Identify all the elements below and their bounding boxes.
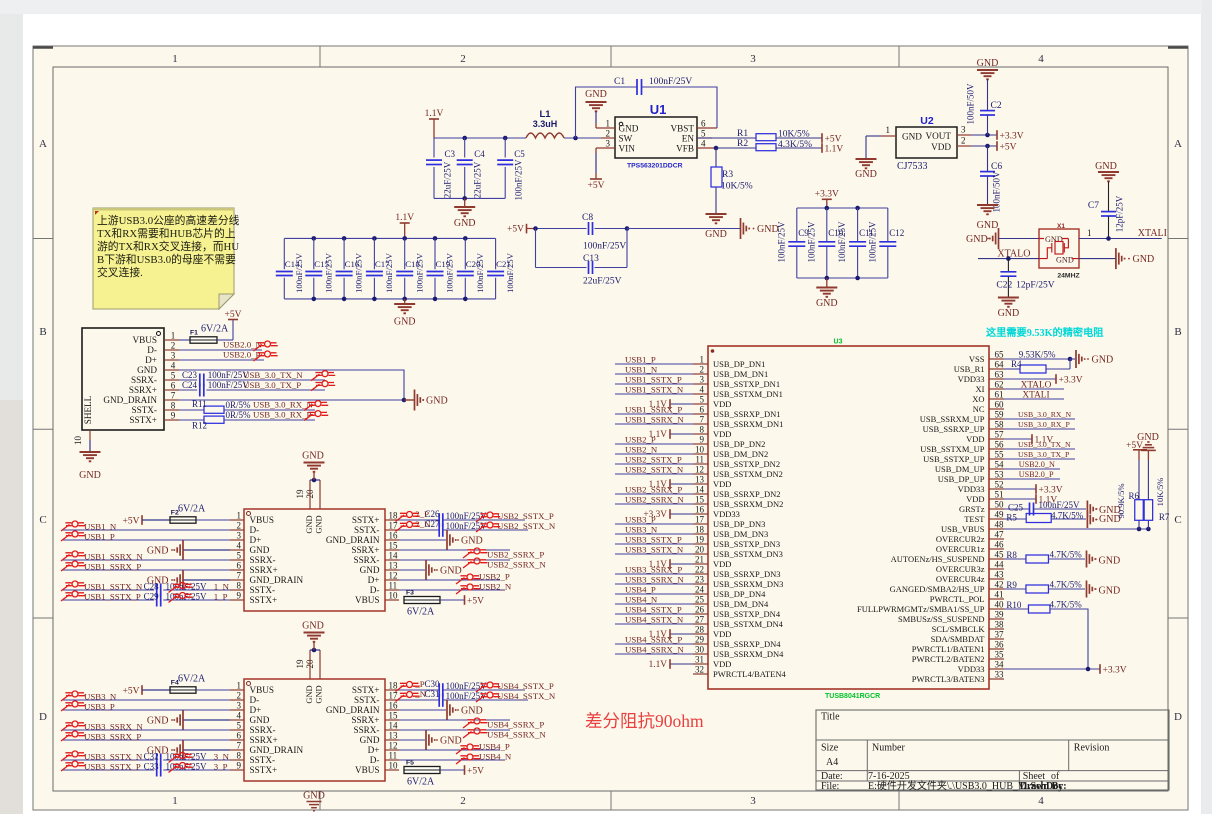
op-amp U1 — [615, 102, 697, 170]
capacitor C32 — [62, 752, 230, 767]
capacitor C31 — [399, 689, 528, 707]
svg-text:6: 6 — [701, 119, 706, 129]
svg-text:GND_DRAIN: GND_DRAIN — [326, 705, 380, 715]
svg-text:+5V: +5V — [225, 310, 242, 320]
svg-text:40: 40 — [995, 600, 1005, 610]
svg-text:C7: C7 — [1088, 201, 1099, 211]
svg-text:100nF/25V: 100nF/25V — [837, 221, 847, 263]
svg-text:3: 3 — [961, 125, 966, 135]
svg-text:6: 6 — [171, 381, 176, 391]
svg-text:USB3_SSRX_N: USB3_SSRX_N — [84, 722, 143, 732]
svg-text:11: 11 — [389, 751, 398, 761]
net USB2_SSTX_N wire U3 pin 12 — [615, 465, 693, 475]
capacitor C1 bootstrap — [576, 77, 718, 138]
net USB4_SSTX_N wire U3 pin 27 — [615, 615, 693, 625]
power +5V at fuse F4 — [123, 685, 170, 696]
svg-text:USB3_P: USB3_P — [625, 515, 656, 525]
svg-text:Revision: Revision — [1074, 743, 1110, 754]
svg-text:USB_3.0_TX_N: USB_3.0_TX_N — [243, 370, 303, 380]
svg-text:8: 8 — [237, 751, 242, 761]
svg-text:12: 12 — [389, 571, 398, 581]
power 1.1V U3 pin 28 — [649, 629, 693, 640]
svg-text:D+: D+ — [368, 745, 380, 755]
svg-text:7: 7 — [237, 741, 242, 751]
svg-text:C2: C2 — [991, 101, 1002, 111]
svg-text:上游USB3.0公座的高速差分线: 上游USB3.0公座的高速差分线 — [97, 213, 240, 227]
svg-text:VDD: VDD — [713, 659, 731, 669]
capacitor C5 — [497, 138, 525, 201]
capacitor C16 — [336, 238, 364, 299]
net XTALO — [978, 249, 1039, 261]
svg-text:USB_DP_DN4: USB_DP_DN4 — [713, 589, 766, 599]
svg-text:_P: _P — [414, 679, 424, 689]
net label USB_3.0_TX_P — [243, 380, 301, 390]
capacitor C26 — [399, 509, 525, 527]
svg-text:26: 26 — [695, 605, 705, 615]
svg-text:C24: C24 — [182, 380, 198, 390]
svg-text:USB_3.0_RX_N: USB_3.0_RX_N — [253, 400, 314, 410]
net VSS wire pin 65 — [1004, 350, 1072, 362]
capacitor C18 — [396, 238, 424, 299]
svg-text:R7: R7 — [1159, 512, 1170, 522]
svg-text:差分阻抗90ohm: 差分阻抗90ohm — [585, 711, 704, 731]
connector J1 upstream — [82, 328, 164, 430]
U1 pin stubs — [596, 128, 717, 148]
svg-text:File:: File: — [821, 781, 839, 792]
connector J2 (USB1/USB2) — [244, 509, 385, 611]
capacitor C8 — [533, 213, 629, 252]
connector J1 pin stubs — [164, 340, 179, 420]
svg-text:TEST: TEST — [964, 514, 985, 524]
svg-text:VDD: VDD — [713, 559, 731, 569]
diff pair marker RX_P — [304, 411, 328, 421]
svg-text:VFB: VFB — [676, 144, 694, 154]
svg-text:R4: R4 — [1011, 359, 1022, 369]
svg-text:GND: GND — [303, 791, 325, 802]
ground below C3-C5 — [454, 198, 476, 229]
svg-text:A4: A4 — [826, 757, 838, 768]
svg-text:100nF/25V: 100nF/25V — [475, 252, 485, 293]
svg-text:35: 35 — [995, 650, 1005, 660]
svg-text:VBUS: VBUS — [250, 685, 275, 695]
svg-text:GND: GND — [147, 716, 169, 727]
net USB1_SSTX_P wire — [84, 592, 228, 602]
resistor R10 at pin 40 — [1004, 600, 1088, 670]
svg-text:GND: GND — [137, 365, 157, 375]
svg-text:USB1_SSRX_P: USB1_SSRX_P — [84, 562, 141, 572]
net USB2.0_P wire — [179, 350, 264, 361]
svg-text:XTALI: XTALI — [1138, 228, 1167, 239]
wire pin4 GND to drain — [179, 370, 404, 400]
svg-text:SSRX-: SSRX- — [131, 375, 157, 385]
svg-text:GND: GND — [1092, 355, 1114, 366]
svg-text:100nF/50V: 100nF/50V — [966, 83, 976, 125]
wire bottom rail C3-C5 — [434, 196, 505, 201]
svg-text:USB2_N: USB2_N — [479, 582, 512, 592]
power +3.3V U3 pin 16 — [643, 509, 693, 520]
svg-text:1.1V: 1.1V — [395, 213, 414, 223]
net USB1_SSRX_N wire — [62, 552, 230, 562]
svg-text:22uF/25V: 22uF/25V — [583, 277, 622, 287]
net USB3_P wire U3 pin 17 — [615, 515, 693, 525]
net USB1_SSTX_P wire U3 pin 3 — [615, 375, 693, 385]
svg-text:43: 43 — [995, 570, 1005, 580]
note text — [97, 213, 240, 279]
diff pair marker USB4_SSRX_N — [463, 728, 487, 738]
fuse F2 — [170, 504, 230, 524]
svg-text:SMBUSz/SS_SUSPEND: SMBUSz/SS_SUSPEND — [898, 614, 984, 624]
svg-text:GND: GND — [1133, 254, 1155, 265]
svg-text:USB_DP_DN2: USB_DP_DN2 — [713, 439, 765, 449]
svg-text:USB4_SSRX_P: USB4_SSRX_P — [625, 635, 682, 645]
diff pair markers USB4_SSTX_N — [396, 692, 501, 703]
svg-text:52: 52 — [995, 480, 1004, 490]
capacitor C17 — [366, 238, 394, 299]
resistor R9 at pin 42 — [1004, 580, 1085, 594]
svg-text:GND: GND — [79, 470, 101, 481]
net USB_3.0_RX_N wire pin 59 — [1004, 410, 1075, 419]
ground at GND_DRAIN — [404, 390, 448, 411]
svg-text:GND: GND — [619, 124, 639, 134]
svg-text:OVERCUR3z: OVERCUR3z — [936, 564, 985, 574]
capacitor C24 — [179, 380, 325, 397]
connector J2 (USB1/USB2) pin names and numbers — [237, 511, 399, 606]
svg-text:19: 19 — [295, 489, 305, 499]
svg-text:SSRX+: SSRX+ — [351, 715, 379, 725]
svg-text:C31: C31 — [425, 689, 440, 699]
svg-text:VBUS: VBUS — [355, 595, 380, 605]
svg-text:USB_VBUS: USB_VBUS — [941, 524, 985, 534]
wire input rail — [434, 137, 615, 139]
svg-text:VBUS: VBUS — [250, 515, 275, 525]
net USB1_SSTX_N wire U3 pin 4 — [615, 385, 693, 395]
svg-text:USB2_SSTX_P: USB2_SSTX_P — [625, 455, 682, 465]
svg-text:12: 12 — [695, 465, 704, 475]
wire gnd rail C9-C12 — [797, 276, 888, 281]
svg-text:USB1_SSRX_N: USB1_SSRX_N — [84, 552, 143, 562]
power 1.1V U3 pin 8 — [649, 429, 693, 440]
svg-text:100nF/25V: 100nF/25V — [414, 252, 424, 293]
svg-text:USB_SSTXM_DN4: USB_SSTXM_DN4 — [713, 619, 784, 629]
net USB4_SSRX_P wire U3 pin 29 — [615, 635, 693, 645]
svg-text:USB1_N: USB1_N — [625, 365, 658, 375]
svg-text:USB2_SSTX_N: USB2_SSTX_N — [497, 521, 556, 531]
svg-text:+5V: +5V — [467, 766, 484, 776]
net USB3_N wire U3 pin 18 — [615, 525, 693, 535]
svg-text:2: 2 — [700, 365, 705, 375]
svg-text:C30: C30 — [425, 679, 441, 689]
svg-text:0R/5%: 0R/5% — [226, 410, 252, 420]
note sticky — [93, 208, 234, 309]
svg-text:R9: R9 — [1006, 580, 1017, 590]
svg-text:USB1_SSTX_P: USB1_SSTX_P — [84, 592, 141, 602]
power 1.1V at R2 — [822, 143, 843, 154]
svg-text:Number: Number — [872, 743, 905, 754]
svg-text:GND_DRAIN: GND_DRAIN — [250, 745, 304, 755]
svg-text:GND: GND — [305, 515, 314, 533]
svg-text:1: 1 — [1087, 228, 1092, 238]
svg-text:SSRX+: SSRX+ — [351, 545, 379, 555]
svg-text:USB3_SSTX_P: USB3_SSTX_P — [625, 535, 682, 545]
junction dots input rail — [462, 136, 577, 141]
svg-text:33: 33 — [995, 670, 1005, 680]
svg-text:VDD33: VDD33 — [958, 374, 985, 384]
svg-text:GND: GND — [705, 229, 727, 240]
svg-text:VDD: VDD — [713, 629, 731, 639]
svg-text:XTALI: XTALI — [1022, 391, 1049, 401]
svg-text:GND: GND — [360, 565, 380, 575]
connector J3 (USB3/USB4) pin stubs — [230, 690, 399, 770]
svg-text:GND_DRAIN: GND_DRAIN — [326, 535, 380, 545]
svg-text:VBST: VBST — [671, 124, 695, 134]
svg-text:USB_SSRXM_DN1: USB_SSRXM_DN1 — [713, 419, 783, 429]
svg-text:28: 28 — [695, 625, 705, 635]
diff pair marker USB2_N — [456, 584, 480, 594]
svg-text:USB1_SSTX_P: USB1_SSTX_P — [625, 375, 682, 385]
svg-text:C28: C28 — [144, 582, 160, 592]
diff pair marker USB2_P — [456, 574, 480, 584]
svg-text:USB_DM_UP: USB_DM_UP — [935, 464, 985, 474]
diff pair marker USB4_SSRX_P — [463, 718, 487, 728]
svg-text:USB_SSRXP_UP: USB_SSRXP_UP — [923, 424, 985, 434]
svg-text:100nF/25V: 100nF/25V — [294, 252, 304, 293]
svg-text:+3.3V: +3.3V — [1000, 131, 1024, 141]
svg-text:8: 8 — [237, 581, 242, 591]
resistor R8 at pin 45 — [1004, 550, 1085, 564]
resistor R1 — [697, 129, 822, 141]
svg-text:100nF/25V: 100nF/25V — [354, 252, 364, 293]
net label USB_3.0_RX_P — [253, 410, 312, 420]
svg-text:XO: XO — [972, 394, 984, 404]
svg-text:27: 27 — [695, 615, 705, 625]
svg-text:10: 10 — [695, 445, 705, 455]
svg-text:13: 13 — [389, 561, 399, 571]
capacitor C30 — [399, 679, 525, 697]
svg-text:USB1_N: USB1_N — [84, 522, 117, 532]
svg-text:13: 13 — [695, 475, 705, 485]
capacitor C15 — [305, 238, 333, 299]
svg-text:F3: F3 — [406, 590, 414, 597]
svg-text:PWRCTL1/BATEN1: PWRCTL1/BATEN1 — [912, 644, 985, 654]
resistor R3 — [711, 148, 753, 213]
svg-text:D: D — [39, 711, 47, 723]
svg-text:GND: GND — [585, 89, 607, 100]
svg-text:100nF/50V: 100nF/50V — [992, 171, 1002, 213]
svg-text:CJ7533: CJ7533 — [897, 161, 928, 172]
power +5V above R6 — [1126, 441, 1147, 451]
svg-text:45: 45 — [995, 550, 1005, 560]
svg-text:USB4_N: USB4_N — [625, 595, 658, 605]
svg-text:C25: C25 — [1008, 503, 1024, 513]
net USB2_SSTX_P wire — [415, 509, 554, 521]
ground at J2 (USB1/USB2) pin16 — [399, 530, 483, 550]
svg-text:100nF/25V: 100nF/25V — [505, 252, 515, 293]
resistor R11 — [179, 399, 315, 413]
svg-text:6V/2A: 6V/2A — [178, 504, 206, 515]
svg-text:D-: D- — [250, 695, 260, 705]
svg-text:EN: EN — [682, 134, 695, 144]
svg-text:USB1_P: USB1_P — [625, 355, 656, 365]
svg-text:B: B — [39, 326, 46, 338]
diff pair markers USB2_SSTX_P — [396, 512, 501, 523]
resistor R7 — [1144, 451, 1170, 530]
svg-text:90.9K/5%: 90.9K/5% — [1116, 483, 1126, 518]
svg-text:100nF/25V: 100nF/25V — [446, 681, 488, 691]
svg-text:GND: GND — [315, 685, 324, 703]
svg-text:23: 23 — [695, 575, 705, 585]
svg-text:GND: GND — [902, 132, 922, 142]
diff pair marker USB2_SSRX_P — [463, 548, 487, 558]
svg-text:GND: GND — [1095, 161, 1117, 172]
svg-text:14: 14 — [389, 551, 399, 561]
svg-text:24MHZ: 24MHZ — [1057, 273, 1079, 280]
svg-text:GND: GND — [426, 396, 448, 407]
svg-text:4: 4 — [1038, 795, 1044, 807]
svg-text:TX和RX需要和HUB芯片的上: TX和RX需要和HUB芯片的上 — [97, 226, 236, 240]
svg-text:USB_R1: USB_R1 — [954, 364, 985, 374]
svg-text:16: 16 — [695, 505, 705, 515]
svg-text:GND: GND — [147, 546, 169, 557]
diff pair marker USB4_N — [456, 754, 480, 764]
net USB1_P wire U3 pin 1 — [615, 355, 693, 365]
regulator U2 — [896, 115, 957, 172]
net USB3_SSTX_P wire — [84, 762, 228, 772]
net USB4_SSTX_P wire — [414, 679, 554, 691]
svg-text:USB2_SSRX_P: USB2_SSRX_P — [625, 485, 682, 495]
capacitor C33 — [62, 762, 230, 777]
wire gnd rail C14-C21 — [284, 297, 495, 302]
net USB3_SSRX_P wire — [62, 732, 230, 742]
svg-text:53: 53 — [995, 470, 1005, 480]
svg-text:VOUT: VOUT — [925, 131, 951, 141]
power 1.1V U3 pin 13 — [649, 479, 693, 490]
svg-text:USB_SSRXM_DN4: USB_SSRXM_DN4 — [713, 649, 784, 659]
svg-text:22uF/25V: 22uF/25V — [473, 161, 483, 198]
svg-text:17: 17 — [389, 691, 399, 701]
svg-text:1: 1 — [606, 119, 611, 129]
net USB_VBUS wire pin 48 — [1004, 527, 1151, 532]
U1 pin numbers — [606, 119, 707, 149]
diff pair marker USB3_P — [61, 701, 85, 711]
ground at J3 (USB3/USB4) pin13 — [399, 730, 462, 750]
svg-text:PWRCTL2/BATEN2: PWRCTL2/BATEN2 — [912, 654, 985, 664]
svg-text:C5: C5 — [514, 149, 525, 159]
hub IC U3 — [708, 339, 989, 701]
svg-text:21: 21 — [695, 555, 704, 565]
svg-text:63: 63 — [995, 370, 1005, 380]
net USB2_P wire — [399, 572, 510, 582]
ground below J3 (USB3/USB4) — [303, 791, 325, 811]
svg-text:+3.3V: +3.3V — [1039, 485, 1063, 495]
svg-text:2: 2 — [171, 341, 176, 351]
svg-text:19: 19 — [295, 659, 305, 669]
svg-text:USB_DP_UP: USB_DP_UP — [938, 474, 985, 484]
svg-text:X1: X1 — [1057, 223, 1065, 230]
power 1.1V above C14-C21 — [395, 213, 414, 238]
svg-text:2: 2 — [460, 53, 466, 65]
power +5V at fuse F5 — [465, 765, 485, 776]
ground at pin 45 — [1087, 551, 1121, 568]
svg-text:15: 15 — [389, 541, 399, 551]
svg-text:USB2_N: USB2_N — [625, 445, 658, 455]
svg-text:C22: C22 — [996, 281, 1012, 291]
svg-text:C33: C33 — [144, 762, 160, 772]
title block — [816, 710, 1169, 790]
svg-text:VDD: VDD — [713, 429, 731, 439]
svg-text:55: 55 — [995, 450, 1005, 460]
capacitor C22 — [996, 259, 1054, 297]
svg-text:42: 42 — [995, 580, 1004, 590]
svg-text:D-: D- — [370, 755, 380, 765]
fuse F1 — [179, 320, 233, 343]
svg-text:10: 10 — [389, 761, 399, 771]
connector J3 (USB3/USB4) — [244, 679, 385, 781]
svg-text:GND_DRAIN: GND_DRAIN — [250, 575, 304, 585]
svg-text:B: B — [1174, 326, 1181, 338]
svg-text:GND: GND — [250, 715, 270, 725]
power 1.1V pin 51 — [1004, 494, 1057, 505]
svg-text:18: 18 — [389, 681, 399, 691]
svg-text:1: 1 — [237, 681, 242, 691]
svg-text:12: 12 — [389, 741, 398, 751]
svg-text:USB3_N: USB3_N — [84, 692, 117, 702]
svg-text:XTALO: XTALO — [1021, 381, 1052, 391]
svg-text:D+: D+ — [368, 575, 380, 585]
svg-text:GND: GND — [1056, 256, 1074, 265]
svg-text:USB1_P: USB1_P — [84, 532, 115, 542]
svg-text:NC: NC — [973, 404, 985, 414]
svg-text:PWRCTL3/BATEN3: PWRCTL3/BATEN3 — [912, 674, 985, 684]
ground above C7 — [1095, 161, 1119, 181]
wire pin7 GND_DRAIN — [179, 398, 406, 403]
svg-text:C: C — [39, 514, 46, 526]
diff pair marker RX_N — [304, 401, 328, 411]
svg-text:5: 5 — [701, 129, 706, 139]
svg-text:100nF/25V: 100nF/25V — [867, 221, 877, 263]
svg-text:USB4_P: USB4_P — [479, 742, 510, 752]
svg-text:2: 2 — [606, 129, 611, 139]
resistor R12 — [179, 410, 315, 431]
svg-text:VDD: VDD — [966, 434, 984, 444]
svg-text:13: 13 — [389, 731, 399, 741]
power +3.3V pin 34 — [1004, 664, 1127, 675]
diff pair marker USB3_SSTX_P — [61, 761, 193, 773]
svg-text:FULLPWRMGMTz/SMBA1/SS_UP: FULLPWRMGMTz/SMBA1/SS_UP — [857, 604, 985, 614]
capacitor C14 — [276, 238, 304, 299]
svg-text:XI: XI — [976, 384, 985, 394]
capacitor C23 — [179, 370, 325, 387]
red annotation — [585, 711, 704, 731]
svg-text:C: C — [1174, 514, 1181, 526]
svg-text:SW: SW — [619, 134, 633, 144]
svg-text:_N: _N — [414, 689, 426, 699]
svg-text:USB4_N: USB4_N — [479, 752, 512, 762]
svg-text:4.3K/5%: 4.3K/5% — [778, 140, 812, 150]
fuse F4 — [170, 674, 230, 694]
fuse F5 — [404, 760, 464, 788]
svg-text:SSTX+: SSTX+ — [352, 515, 380, 525]
svg-text:USB_DM_DN2: USB_DM_DN2 — [713, 449, 768, 459]
svg-text:TPS563201DDCR: TPS563201DDCR — [627, 163, 683, 170]
svg-text:1_N: 1_N — [214, 582, 230, 592]
svg-text:SSTX+: SSTX+ — [250, 595, 278, 605]
svg-text:46: 46 — [995, 540, 1005, 550]
svg-text:5: 5 — [237, 721, 242, 731]
svg-text:C32: C32 — [144, 752, 159, 762]
svg-text:C23: C23 — [182, 370, 198, 380]
svg-text:1: 1 — [237, 511, 242, 521]
net USB3_SSRX_P wire U3 pin 22 — [615, 565, 693, 575]
